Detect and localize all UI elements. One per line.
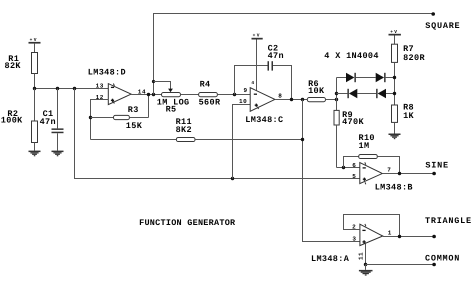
svg-text:LM348:D: LM348:D	[88, 68, 126, 78]
resistor R7 820R	[392, 44, 426, 105]
wire pin 10 riser	[233, 105, 251, 179]
junction dot top diode row right	[393, 76, 396, 79]
svg-text:7: 7	[387, 166, 391, 173]
wire pin 12 loop	[91, 100, 109, 140]
svg-text:4 X 1N4004: 4 X 1N4004	[324, 51, 379, 61]
junction dot R3 left	[89, 116, 92, 119]
power +V rail symbol (above op-amp C pin 4)	[251, 34, 262, 91]
svg-text:LM348:B: LM348:B	[375, 182, 413, 192]
op-amp U1B LM348:B	[352, 162, 413, 192]
wire top rail to SQUARE	[154, 14, 434, 95]
wire COMMON	[366, 264, 435, 266]
wire op-amp B output to SINE	[382, 173, 434, 175]
resistor R6 10K	[307, 79, 336, 102]
svg-text:R5: R5	[166, 105, 177, 115]
wire op-amp C output	[275, 99, 307, 101]
wire pin 11 to common/ground	[365, 243, 367, 264]
svg-text:5: 5	[352, 173, 356, 180]
wire pin 6 line	[337, 167, 360, 169]
terminal SINE	[432, 172, 436, 176]
ground (below C1)	[52, 151, 64, 157]
ground (op-amp A pin 11)	[359, 265, 373, 276]
junction dot R3 riser	[147, 93, 150, 96]
junction dot reference/pin10 riser	[231, 177, 234, 180]
svg-text:560R: 560R	[199, 98, 221, 108]
junction dot bottom diode row left	[335, 92, 338, 95]
svg-text:10K: 10K	[308, 86, 325, 96]
junction dot bottom diode row right	[393, 92, 396, 95]
resistor R8 1K	[392, 103, 415, 134]
wire reference drop (node to reference rail)	[75, 89, 360, 179]
svg-text:100K: 100K	[1, 115, 23, 125]
diode D3 1N4004	[347, 89, 357, 98]
svg-text:15K: 15K	[126, 121, 143, 131]
diode D2 1N4004	[376, 73, 386, 82]
resistor R2 100K	[1, 89, 38, 151]
svg-text:R4: R4	[200, 80, 211, 90]
capacitor C1 47n	[40, 89, 64, 151]
svg-text:8: 8	[278, 92, 282, 99]
junction dot R1/R2	[33, 87, 36, 90]
svg-text:9: 9	[244, 87, 248, 94]
wire op-amp D output	[131, 94, 161, 96]
wire top diode row	[337, 77, 347, 79]
svg-text:TRIANGLE: TRIANGLE	[425, 216, 472, 226]
svg-text:470K: 470K	[342, 117, 364, 127]
diode D4 1N4004	[376, 89, 386, 98]
wire between D3 and D4	[357, 93, 376, 95]
junction dot rail riser	[152, 93, 155, 96]
junction dot A feedback	[398, 235, 401, 238]
svg-text:11: 11	[358, 252, 365, 260]
svg-text:FUNCTION GENERATOR: FUNCTION GENERATOR	[139, 218, 236, 228]
svg-text:4: 4	[251, 81, 254, 86]
svg-text:6: 6	[352, 162, 356, 169]
junction dot C2 right riser	[290, 98, 293, 101]
power +V rail symbol (above R7)	[389, 30, 401, 44]
op-amp U1D LM348:D	[88, 68, 146, 105]
svg-text:820R: 820R	[403, 53, 425, 63]
svg-text:82K: 82K	[5, 61, 22, 71]
svg-text:COMMON: COMMON	[425, 254, 460, 264]
wire R5 to R4	[181, 94, 199, 96]
resistor R1 82K	[5, 53, 38, 74]
svg-text:1M: 1M	[359, 141, 370, 151]
diode D1 1N4004	[346, 73, 356, 82]
resistor R9 470K	[334, 110, 364, 167]
terminal COMMON	[432, 263, 436, 267]
svg-text:13: 13	[96, 83, 104, 90]
wire R1 bottom to node	[34, 74, 36, 89]
potentiometer R5 1M LOG	[152, 80, 190, 115]
capacitor C2 47n feedback	[235, 43, 292, 99]
junction dot pin 11 node	[364, 263, 367, 266]
svg-text:47n: 47n	[268, 51, 284, 61]
svg-text:47n: 47n	[40, 117, 56, 127]
wire bottom diode row	[337, 93, 348, 95]
ground (below R8)	[389, 134, 401, 140]
junction dot R10 loop left	[342, 166, 345, 169]
svg-text:LM348:C: LM348:C	[245, 115, 283, 125]
op-amp U1C LM348:C	[239, 87, 283, 125]
resistor R3 15K	[91, 95, 149, 132]
svg-text:1: 1	[388, 230, 392, 237]
junction dot C2 left riser	[233, 93, 236, 96]
wire diode network left column	[336, 78, 338, 111]
svg-text:8K2: 8K2	[176, 125, 192, 135]
wire between D1 and D2	[356, 77, 376, 79]
terminal SQUARE	[431, 12, 435, 16]
svg-text:SQUARE: SQUARE	[425, 21, 460, 31]
junction dot reference drop	[73, 87, 76, 90]
svg-text:10: 10	[239, 98, 247, 105]
svg-text:3: 3	[352, 236, 356, 243]
svg-text:LM348:A: LM348:A	[311, 254, 350, 264]
power +V rail symbol (left, above R1)	[29, 38, 41, 52]
junction dot triangle drop	[301, 98, 304, 101]
junction dot C1 tap	[56, 87, 59, 90]
resistor R11 8K2	[91, 117, 303, 142]
resistor R10 1M feedback	[344, 133, 400, 174]
junction dot diode network left / R6	[335, 98, 338, 101]
junction dot R10 right riser	[398, 172, 401, 175]
wire triangle signal drop	[303, 100, 360, 242]
op-amp U1A LM348:A	[311, 223, 392, 263]
svg-text:SINE: SINE	[425, 160, 448, 170]
svg-text:1K: 1K	[403, 111, 414, 121]
wire op-amp A feedback loop	[344, 215, 400, 237]
svg-text:R3: R3	[128, 105, 139, 115]
ground (below R2)	[29, 151, 41, 157]
terminal TRIANGLE	[432, 235, 436, 239]
wire D4 to right column	[386, 93, 395, 95]
junction dot R11 tap	[301, 138, 304, 141]
wire op-amp A output to TRIANGLE	[383, 236, 434, 238]
resistor R4 560R	[199, 80, 251, 108]
wire D2 to right column	[386, 77, 395, 79]
node line (half-supply node) to pin 13	[35, 88, 109, 90]
